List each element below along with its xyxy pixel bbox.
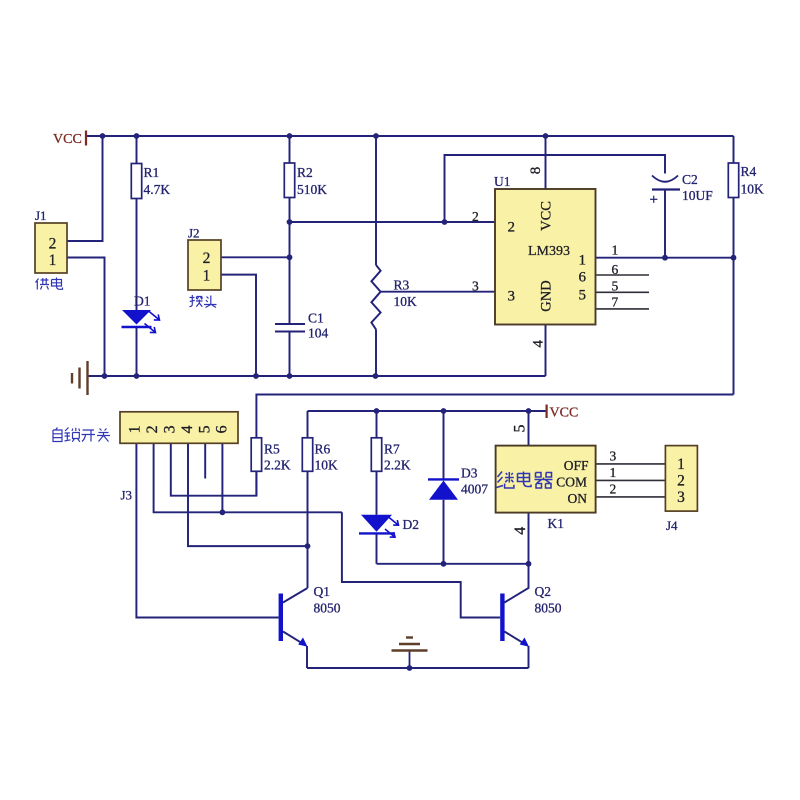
svg-text:GND: GND	[539, 280, 555, 311]
junction VCC rail / R1	[134, 133, 140, 139]
svg-text:D1: D1	[134, 294, 151, 309]
ground symbol bottom	[392, 638, 428, 669]
junction link line / K1 pin4	[526, 561, 532, 567]
svg-text:R4: R4	[741, 164, 757, 179]
svg-text:6: 6	[214, 425, 231, 433]
svg-text:+: +	[650, 192, 658, 208]
wire R6 column top	[307, 411, 309, 438]
svg-text:J2: J2	[188, 226, 200, 241]
wire J3 pin4 to Q1 collector column	[188, 443, 308, 546]
pin stub U1 pin 6	[596, 274, 650, 276]
label 继电器 (relay)	[497, 472, 553, 489]
junction link line / D3	[441, 561, 447, 567]
wire D2/D3/K1 link line	[377, 563, 529, 565]
junction VCC rail / R2	[287, 133, 293, 139]
svg-text:8: 8	[528, 167, 544, 175]
op-amp U1 LM393	[494, 174, 596, 325]
wire J3 pin1 to Q1 base	[136, 443, 278, 617]
wire R7 to D2	[376, 471, 378, 515]
label 供电 (power)	[36, 278, 63, 290]
svg-text:R2: R2	[297, 165, 313, 180]
pin stub U1 pin 5	[596, 291, 650, 293]
resistor R2	[284, 163, 327, 198]
wire lower VCC rail	[308, 410, 547, 412]
svg-text:510K: 510K	[297, 182, 327, 197]
svg-text:6: 6	[579, 270, 587, 286]
svg-text:3: 3	[472, 278, 479, 293]
svg-text:R5: R5	[264, 442, 280, 457]
svg-text:5: 5	[512, 425, 529, 433]
svg-text:10UF: 10UF	[682, 188, 713, 203]
svg-text:OFF: OFF	[564, 458, 589, 473]
wire K1 pin4	[528, 513, 530, 564]
diode D3	[428, 466, 488, 500]
svg-text:3: 3	[508, 288, 516, 304]
VCC power symbol lower	[547, 405, 579, 421]
svg-text:5: 5	[612, 279, 619, 294]
resistor R6	[302, 438, 338, 473]
svg-text:4007: 4007	[461, 482, 488, 497]
wire C2 bottom to pin1 line	[664, 190, 666, 258]
wire D2 bottom	[376, 533, 378, 563]
svg-text:2.2K: 2.2K	[384, 458, 411, 473]
U1 pin number labels outside	[472, 167, 619, 348]
wire J2 pin2 to R2 column	[221, 256, 290, 258]
svg-text:10K: 10K	[315, 458, 339, 473]
junction J2 pin2 / R2 column	[287, 254, 293, 260]
junction J3 pin4 / Q1 collector column	[305, 543, 311, 549]
wire to Q2 base	[342, 512, 500, 617]
wire J3 pin2	[154, 443, 342, 512]
svg-text:4: 4	[512, 527, 529, 535]
junction pin2 net / R2 column	[287, 219, 293, 225]
svg-text:2.2K: 2.2K	[264, 458, 291, 473]
wire R6 bottom to Q1 collector	[307, 471, 309, 588]
junction VCC rail / J1	[100, 133, 106, 139]
svg-text:C1: C1	[308, 311, 324, 326]
svg-text:Q2: Q2	[535, 584, 552, 599]
svg-text:8050: 8050	[314, 601, 341, 616]
junction lower VCC rail / R7	[374, 408, 380, 414]
junction ground rail / C1	[287, 373, 293, 379]
svg-text:2: 2	[49, 235, 57, 252]
svg-text:VCC: VCC	[539, 201, 555, 231]
pin stub K1 COM to J4	[596, 479, 666, 481]
svg-text:R7: R7	[384, 442, 400, 457]
junction pin2 net / C2 branch	[442, 219, 448, 225]
svg-text:5: 5	[579, 287, 587, 303]
svg-text:2: 2	[508, 219, 516, 235]
wire Q2 collector	[504, 564, 528, 603]
pin stub K1 OFF to J4	[596, 463, 666, 465]
connector J3	[120, 412, 238, 503]
svg-text:J3: J3	[121, 488, 133, 503]
capacitor C2 polarized	[650, 172, 714, 208]
wire U1 pin4 to ground rail	[545, 325, 547, 377]
wire U1 pin1 net	[596, 257, 734, 259]
svg-text:4: 4	[179, 425, 196, 433]
junction ground rail / D1	[134, 373, 140, 379]
wire J3 pin3 to R5	[171, 443, 257, 495]
junction pin1 net / R4	[731, 255, 737, 261]
diode D2 LED	[359, 515, 419, 537]
wire J1 pin1 to ground rail	[67, 258, 105, 377]
wire R2/C1 column	[289, 136, 291, 376]
wire Q2 emitter down	[528, 646, 530, 668]
capacitor C1	[275, 311, 329, 341]
connector J4	[665, 446, 697, 533]
wire R1/D1 column	[136, 136, 138, 376]
connector J1	[35, 208, 67, 273]
svg-text:10K: 10K	[394, 294, 418, 309]
resistor R3 zigzag	[371, 265, 380, 329]
svg-text:1: 1	[612, 243, 619, 258]
junction ground rail / R3	[373, 373, 379, 379]
svg-text:2: 2	[610, 482, 617, 497]
K1 pin number labels	[512, 425, 617, 535]
wire D3 column	[443, 411, 445, 564]
wire J3 pin5 stub	[204, 443, 206, 478]
junction ground rail / J1 pin1	[102, 373, 108, 379]
junction VCC rail / R3	[373, 133, 379, 139]
svg-text:2: 2	[144, 425, 161, 433]
svg-text:4.7K: 4.7K	[144, 182, 171, 197]
svg-text:J4: J4	[666, 518, 678, 533]
connector J2	[188, 226, 221, 291]
wire J3 pin6	[221, 443, 223, 512]
wire Q1 emitter diagonal	[283, 632, 306, 646]
transistor Q2	[500, 584, 562, 647]
svg-text:2: 2	[203, 250, 211, 267]
resistor R7	[371, 438, 411, 473]
svg-text:COM: COM	[556, 475, 587, 490]
junction ground rail / J2 pin1	[253, 373, 259, 379]
transistor Q1	[279, 584, 341, 647]
svg-text:4: 4	[531, 339, 547, 347]
wire R3 column top	[375, 136, 377, 265]
junction J3 pin6 / pin2 line	[220, 509, 226, 515]
label 自锁开关 (self-lock switch)	[53, 428, 110, 442]
svg-text:R1: R1	[144, 165, 160, 180]
wire J2 pin1 to ground rail	[221, 275, 256, 376]
resistor R3 labels	[394, 278, 418, 310]
wire R4 column	[733, 136, 735, 395]
svg-text:1: 1	[203, 268, 211, 285]
wire output net to R5	[256, 395, 733, 438]
label 探头 (probe)	[190, 295, 217, 308]
resistor R5	[251, 438, 291, 473]
svg-text:U1: U1	[494, 174, 511, 189]
svg-text:104: 104	[308, 326, 329, 341]
wire U1 pin2 net	[290, 221, 496, 223]
svg-text:VCC: VCC	[550, 406, 579, 421]
svg-text:8050: 8050	[535, 601, 562, 616]
resistor R1	[131, 164, 170, 199]
svg-text:Q1: Q1	[314, 584, 331, 599]
svg-text:D3: D3	[461, 466, 478, 481]
wire U1 pin3 net	[381, 291, 495, 293]
svg-text:6: 6	[612, 262, 619, 277]
junction lower VCC rail / D3	[441, 408, 447, 414]
svg-text:7: 7	[612, 295, 619, 310]
wire Q2 emitter diagonal	[504, 632, 527, 646]
svg-text:K1: K1	[548, 516, 565, 531]
resistor R4	[728, 163, 764, 198]
svg-text:1: 1	[127, 425, 144, 433]
svg-text:1: 1	[677, 456, 685, 473]
svg-text:10K: 10K	[741, 182, 765, 197]
ground symbol top-left	[72, 361, 88, 395]
wire J1 pin2 to VCC rail	[67, 136, 103, 241]
svg-text:3: 3	[162, 425, 179, 433]
wire R5 bottom column	[255, 471, 257, 495]
junction emitter rail / ground	[407, 665, 413, 671]
wire ground rail	[88, 375, 546, 377]
svg-text:D2: D2	[403, 517, 420, 532]
wire Q1 collector diagonal	[283, 588, 308, 603]
svg-text:2: 2	[677, 473, 685, 490]
junction VCC rail / U1 pin8	[543, 133, 549, 139]
wire R3 column bottom	[375, 329, 377, 376]
svg-text:C2: C2	[682, 172, 698, 187]
pin stub U1 pin 7	[596, 308, 650, 310]
svg-text:5: 5	[196, 425, 213, 433]
svg-text:ON: ON	[568, 491, 588, 506]
svg-text:R3: R3	[394, 278, 410, 293]
diode D1 LED	[122, 294, 160, 333]
wire K1 pin5	[528, 411, 530, 446]
svg-text:2: 2	[472, 209, 479, 224]
svg-text:1: 1	[49, 252, 57, 269]
wire R7 column top	[376, 411, 378, 438]
svg-text:VCC: VCC	[53, 132, 82, 147]
VCC power symbol top	[53, 131, 86, 148]
wire emitter rail	[307, 667, 529, 669]
wire U1 pin8 to VCC rail	[545, 136, 547, 189]
svg-text:1: 1	[579, 252, 587, 268]
svg-text:R6: R6	[315, 442, 331, 457]
wire VCC top rail	[86, 135, 734, 137]
junction lower VCC rail / K1 pin5	[526, 408, 532, 414]
svg-text:3: 3	[610, 449, 617, 464]
svg-text:J1: J1	[35, 208, 47, 223]
svg-text:3: 3	[677, 489, 685, 506]
wire Q1 emitter down	[306, 646, 308, 668]
junction pin1 net / C2	[662, 255, 668, 261]
svg-text:LM393: LM393	[528, 244, 570, 259]
svg-text:1: 1	[610, 465, 617, 480]
pin stub K1 ON to J4	[596, 496, 666, 498]
relay K1	[496, 446, 596, 531]
wire pin2 branch up to C2 top	[445, 155, 666, 222]
